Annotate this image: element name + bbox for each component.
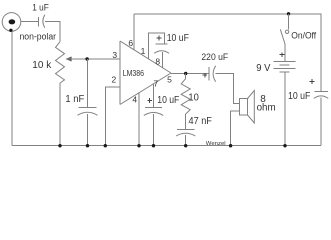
wire C1 to potentiometer top <box>45 22 60 42</box>
svg-text:10 uF: 10 uF <box>157 95 179 106</box>
svg-text:6: 6 <box>128 38 133 48</box>
top rail wire <box>134 14 321 91</box>
node switch junction <box>287 12 290 15</box>
node output junction <box>184 72 187 75</box>
wire pin 1 up <box>149 33 165 59</box>
wire junction to R2 <box>185 74 187 79</box>
svg-text:Wenzel: Wenzel <box>206 141 226 147</box>
capacitor C6 220uF output <box>208 67 210 81</box>
svg-text:ohm: ohm <box>257 103 276 114</box>
node pin2 ground <box>104 144 107 147</box>
svg-text:LM386: LM386 <box>123 68 145 78</box>
node pot ground <box>58 144 61 147</box>
svg-text:2: 2 <box>112 74 117 84</box>
wire C5 to ground rail <box>185 135 187 146</box>
node speaker ground <box>229 144 232 147</box>
svg-text:On/Off: On/Off <box>291 31 316 42</box>
capacitor C4 10uF (pin 7 bypass) <box>145 107 162 109</box>
resistor R2 10 <box>181 79 190 114</box>
wire pin 7 down <box>153 84 155 107</box>
svg-text:1 uF: 1 uF <box>32 3 49 13</box>
svg-text:220 uF: 220 uF <box>201 52 228 62</box>
svg-text:1 nF: 1 nF <box>65 94 84 105</box>
svg-text:7: 7 <box>154 78 159 88</box>
svg-text:10: 10 <box>188 92 199 103</box>
node wiper junction <box>85 57 88 60</box>
switch S1 On/Off <box>287 14 289 30</box>
plus sign of C4 <box>147 98 152 103</box>
wire battery to ground rail <box>284 72 286 146</box>
svg-text:10 uF: 10 uF <box>288 91 310 102</box>
wire C7 to ground rail <box>320 98 322 146</box>
ground rail wire <box>12 145 321 147</box>
svg-text:8: 8 <box>155 57 160 67</box>
plus sign of C6 <box>203 73 208 78</box>
node C4 ground <box>152 144 155 147</box>
wire C3 to pin 8 <box>161 52 163 68</box>
capacitor C7 10uF supply bypass <box>314 91 327 93</box>
wire C6 to speaker <box>216 74 240 104</box>
svg-text:3: 3 <box>112 50 117 60</box>
wire output pin 5 <box>171 73 209 75</box>
wire jack to C1 <box>21 21 38 23</box>
svg-text:10 uF: 10 uF <box>167 33 189 44</box>
node C2 ground <box>86 144 89 147</box>
battery BT1 9V <box>274 61 296 63</box>
wire pin 4 to ground <box>138 93 140 146</box>
svg-text:non-polar: non-polar <box>20 31 57 41</box>
wiper arrow of R1 <box>65 57 71 62</box>
wire pin 6 to top rail <box>133 14 135 50</box>
node battery ground <box>283 144 286 147</box>
svg-text:10 k: 10 k <box>32 60 52 71</box>
wire switch to battery <box>284 44 286 62</box>
capacitor C2 1nF <box>79 106 97 108</box>
wire R2 to C5 <box>185 114 187 129</box>
svg-text:9 V: 9 V <box>256 63 271 74</box>
plus sign of C3 <box>157 36 162 41</box>
wire speaker to ground rail <box>231 111 240 146</box>
speaker LS1 <box>239 99 247 116</box>
capacitor C3 10uF (pins 1-8) <box>156 43 168 45</box>
wire pin 2 to ground <box>105 87 120 146</box>
wire pot bottom to ground rail <box>59 83 61 146</box>
wire junction down to C2 <box>86 59 88 107</box>
svg-text:4: 4 <box>132 95 137 105</box>
plus sign of C7 <box>310 79 315 84</box>
svg-text:5: 5 <box>167 75 172 85</box>
capacitor C1 1uF non-polar <box>37 17 39 27</box>
wire jack ground down <box>11 31 13 145</box>
potentiometer R1 10k <box>56 42 65 83</box>
node pin4 ground <box>137 144 140 147</box>
capacitor C5 47nF <box>177 128 195 130</box>
plus sign of battery <box>280 52 285 57</box>
svg-text:47 nF: 47 nF <box>189 116 212 127</box>
op-amp U1 LM386 <box>119 41 121 105</box>
wire wiper to pin 3 <box>66 58 120 60</box>
input jack J1 <box>2 13 21 32</box>
wire C2 to ground rail <box>87 114 89 146</box>
svg-text:1: 1 <box>141 46 146 56</box>
node C5 ground <box>184 144 187 147</box>
wire C4 to ground rail <box>153 114 155 146</box>
